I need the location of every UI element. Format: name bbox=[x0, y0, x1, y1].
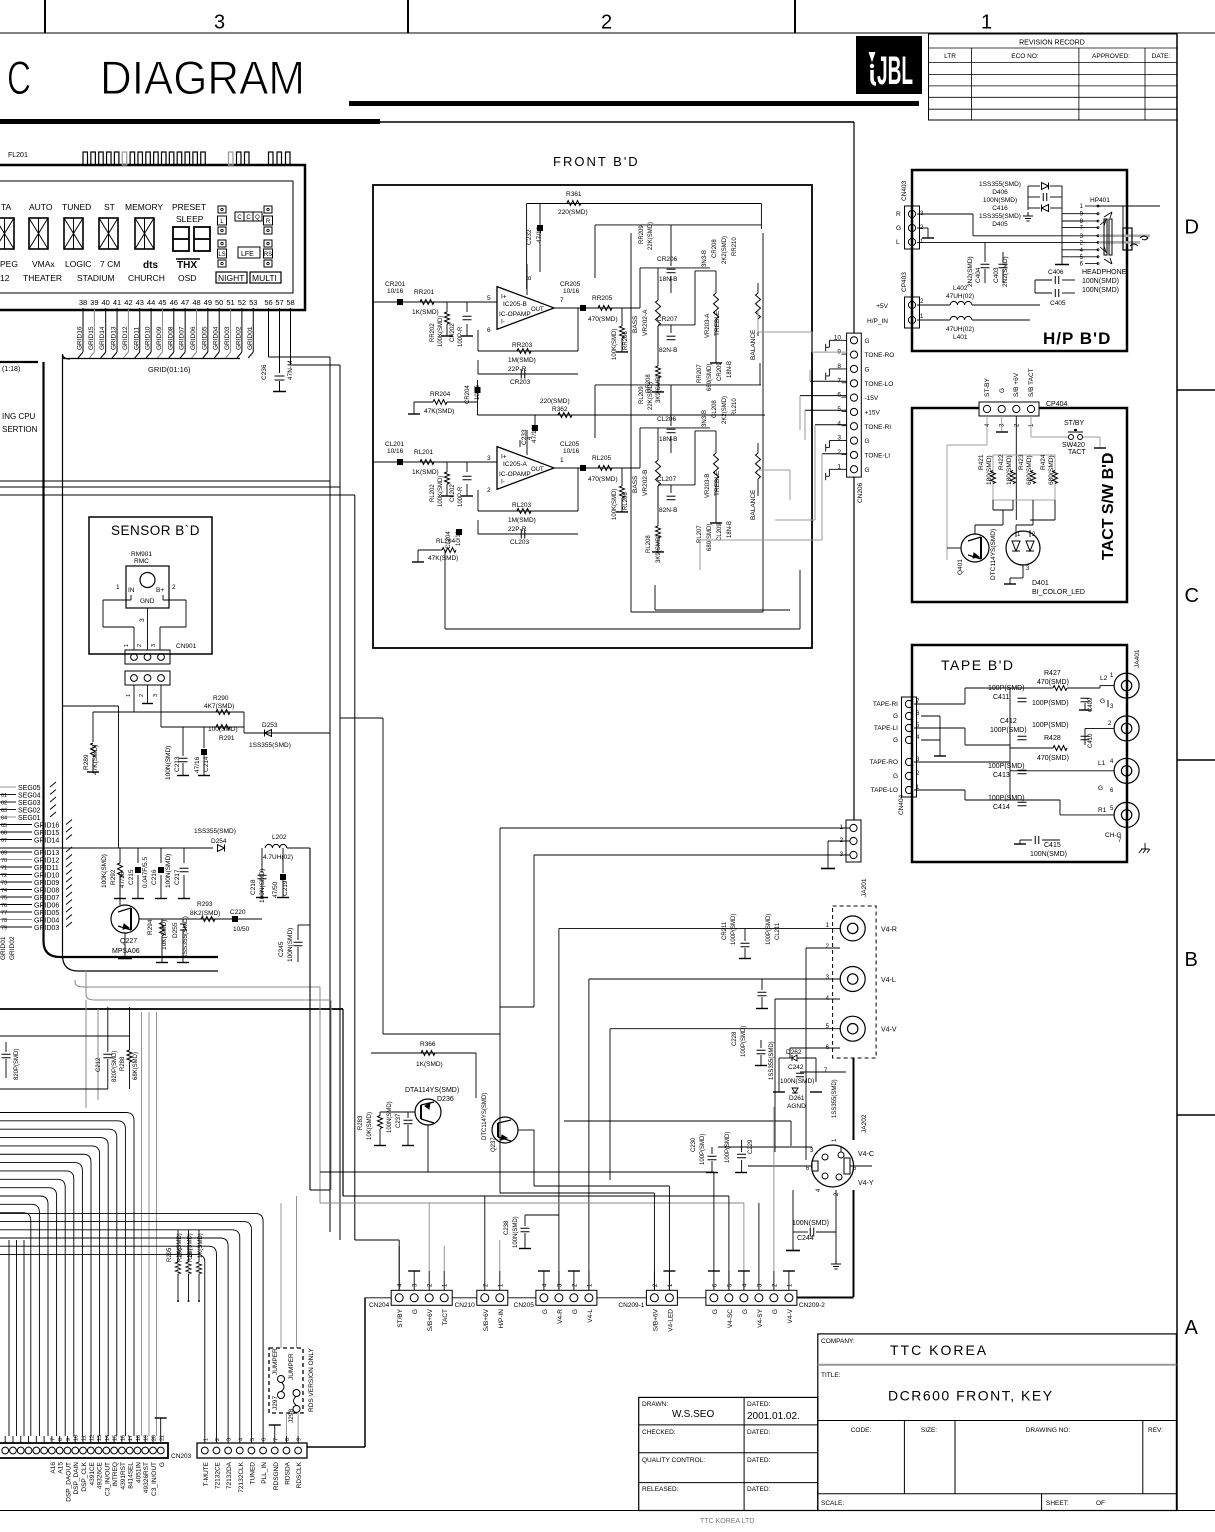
svg-text:47: 47 bbox=[181, 298, 189, 307]
svg-text:100N(SMD): 100N(SMD) bbox=[165, 746, 172, 780]
svg-text:GND: GND bbox=[140, 598, 155, 605]
svg-text:79: 79 bbox=[1, 926, 7, 932]
svg-text:4: 4 bbox=[238, 1438, 244, 1441]
svg-text:TUNED: TUNED bbox=[62, 202, 91, 212]
svg-text:J297: J297 bbox=[272, 1396, 279, 1410]
svg-text:2: 2 bbox=[837, 449, 841, 456]
svg-text:C: C bbox=[237, 215, 242, 221]
svg-text:G: G bbox=[896, 225, 901, 232]
svg-text:TONE-LI: TONE-LI bbox=[865, 452, 891, 459]
svg-text:FL201: FL201 bbox=[8, 152, 28, 159]
svg-text:C: C bbox=[246, 215, 251, 221]
svg-text:9: 9 bbox=[297, 1438, 303, 1441]
svg-text:JBL: JBL bbox=[877, 49, 913, 93]
svg-text:CR202: CR202 bbox=[450, 323, 456, 342]
svg-text:65: 65 bbox=[1, 823, 7, 829]
svg-text:R: R bbox=[266, 219, 271, 225]
svg-text:C213: C213 bbox=[174, 756, 181, 772]
svg-text:PRESET: PRESET bbox=[172, 202, 206, 212]
svg-text:C413: C413 bbox=[993, 772, 1010, 779]
svg-text:GRID(01:16): GRID(01:16) bbox=[148, 365, 191, 374]
svg-text:820P(SMD): 820P(SMD) bbox=[112, 1051, 118, 1082]
svg-text:G: G bbox=[159, 1462, 166, 1467]
svg-text:57: 57 bbox=[275, 298, 283, 307]
svg-text:67: 67 bbox=[1, 838, 7, 844]
svg-text:GRID12: GRID12 bbox=[122, 326, 129, 350]
svg-text:GRID07: GRID07 bbox=[179, 326, 186, 350]
svg-text:V4-R: V4-R bbox=[881, 926, 897, 933]
svg-text:CL201: CL201 bbox=[385, 441, 405, 448]
svg-text:R424: R424 bbox=[1040, 454, 1047, 470]
svg-text:43: 43 bbox=[136, 298, 144, 307]
svg-text:GRID10: GRID10 bbox=[34, 873, 59, 880]
svg-text:DATED:: DATED: bbox=[747, 1429, 771, 1436]
svg-text:41: 41 bbox=[113, 298, 121, 307]
svg-text:2: 2 bbox=[172, 584, 176, 591]
svg-text:C406: C406 bbox=[1048, 269, 1064, 276]
svg-text:GRID03: GRID03 bbox=[34, 925, 59, 932]
svg-text:LS: LS bbox=[218, 252, 225, 258]
svg-text:RR202: RR202 bbox=[430, 323, 436, 342]
svg-text:OUT: OUT bbox=[531, 307, 544, 313]
svg-text:B+: B+ bbox=[156, 587, 164, 594]
svg-text:GRID09: GRID09 bbox=[34, 880, 59, 887]
svg-text:C: C bbox=[1185, 585, 1199, 607]
svg-text:CN404: CN404 bbox=[898, 794, 905, 815]
svg-text:STADIUM: STADIUM bbox=[77, 273, 115, 283]
svg-text:69: 69 bbox=[1, 851, 7, 857]
svg-text:QUALITY CONTROL:: QUALITY CONTROL: bbox=[642, 1457, 705, 1464]
svg-text:BI_COLOR_LED: BI_COLOR_LED bbox=[1032, 589, 1085, 596]
svg-text:RR210: RR210 bbox=[732, 237, 738, 256]
svg-text:GRID16: GRID16 bbox=[77, 326, 84, 350]
svg-text:C: C bbox=[7, 51, 31, 104]
svg-text:GRID13: GRID13 bbox=[34, 850, 59, 857]
svg-text:1: 1 bbox=[126, 694, 132, 697]
svg-text:100P-R: 100P-R bbox=[458, 486, 464, 507]
svg-text:CL207: CL207 bbox=[657, 476, 677, 483]
svg-text:C414: C414 bbox=[993, 804, 1010, 811]
svg-text:220(SMD): 220(SMD) bbox=[540, 398, 570, 405]
svg-text:C233: C233 bbox=[521, 429, 528, 445]
svg-text:18N-B: 18N-B bbox=[659, 436, 677, 443]
svg-text:49326RST: 49326RST bbox=[143, 1462, 150, 1493]
svg-text:JUMPER: JUMPER bbox=[272, 1348, 279, 1375]
svg-text:TAPE B'D: TAPE B'D bbox=[941, 657, 1015, 673]
svg-text:ECO NO:: ECO NO: bbox=[1011, 53, 1039, 60]
svg-text:CR211: CR211 bbox=[722, 921, 728, 940]
svg-text:12: 12 bbox=[0, 273, 10, 283]
svg-text:3: 3 bbox=[139, 618, 146, 622]
svg-text:47UH(02): 47UH(02) bbox=[946, 293, 974, 300]
svg-text:G: G bbox=[865, 366, 870, 373]
svg-text:3N3-B: 3N3-B bbox=[702, 250, 708, 267]
svg-text:THX: THX bbox=[177, 260, 197, 271]
svg-text:2: 2 bbox=[601, 12, 612, 34]
svg-text:22K(SMD): 22K(SMD) bbox=[648, 222, 654, 250]
svg-text:CR207: CR207 bbox=[657, 316, 678, 323]
svg-text:53: 53 bbox=[249, 298, 257, 307]
svg-text:100P(SMD): 100P(SMD) bbox=[731, 914, 737, 945]
svg-text:82N-B: 82N-B bbox=[659, 507, 677, 514]
svg-text:CN209-1: CN209-1 bbox=[618, 1302, 644, 1309]
svg-text:LFE: LFE bbox=[241, 251, 254, 258]
svg-text:TREBLE: TREBLE bbox=[714, 470, 721, 496]
svg-text:C220: C220 bbox=[230, 909, 246, 916]
svg-text:CN205: CN205 bbox=[514, 1302, 535, 1309]
svg-text:R361: R361 bbox=[566, 191, 582, 198]
svg-text:G: G bbox=[865, 438, 870, 445]
svg-text:2: 2 bbox=[139, 694, 145, 697]
svg-text:I+: I+ bbox=[501, 294, 507, 301]
svg-text:H/P_IN: H/P_IN bbox=[867, 318, 888, 325]
svg-text:RL205: RL205 bbox=[592, 455, 612, 462]
svg-text:100P(SMD): 100P(SMD) bbox=[741, 1026, 747, 1057]
svg-text:C216: C216 bbox=[151, 869, 158, 885]
svg-text:D236: D236 bbox=[437, 1096, 454, 1103]
svg-text:7: 7 bbox=[273, 1438, 279, 1441]
svg-text:TONE-LO: TONE-LO bbox=[865, 381, 894, 388]
svg-text:10/16: 10/16 bbox=[563, 288, 580, 295]
svg-text:HP401: HP401 bbox=[1090, 197, 1110, 204]
svg-text:V4-L: V4-L bbox=[587, 1309, 594, 1323]
svg-text:SEG04: SEG04 bbox=[18, 793, 41, 800]
svg-text:VR202-A: VR202-A bbox=[642, 309, 649, 336]
svg-text:100K(SMD): 100K(SMD) bbox=[101, 854, 108, 888]
svg-text:REV:: REV: bbox=[1148, 1427, 1163, 1434]
svg-text:G: G bbox=[572, 1309, 579, 1314]
svg-text:7 CM: 7 CM bbox=[100, 259, 120, 269]
svg-text:100P-R: 100P-R bbox=[458, 326, 464, 347]
svg-text:100P(SMD): 100P(SMD) bbox=[988, 795, 1025, 802]
svg-text:C228: C228 bbox=[732, 1031, 738, 1046]
svg-text:TACT: TACT bbox=[1068, 449, 1086, 456]
svg-text:ST/BY: ST/BY bbox=[1064, 420, 1085, 427]
svg-text:+15V: +15V bbox=[865, 409, 881, 416]
svg-text:CL209: CL209 bbox=[717, 523, 723, 541]
svg-text:2: 2 bbox=[487, 487, 491, 494]
svg-text:AUTO: AUTO bbox=[29, 202, 53, 212]
svg-text:R423: R423 bbox=[1018, 454, 1025, 470]
svg-text:CL203: CL203 bbox=[510, 539, 530, 546]
svg-text:100N(SMD): 100N(SMD) bbox=[165, 854, 172, 888]
svg-text:R289: R289 bbox=[83, 754, 90, 770]
svg-text:470(SMD): 470(SMD) bbox=[588, 476, 618, 483]
svg-text:RR206: RR206 bbox=[623, 331, 629, 350]
svg-text:JA202: JA202 bbox=[861, 1114, 868, 1133]
svg-text:56: 56 bbox=[264, 298, 272, 307]
svg-text:46: 46 bbox=[170, 298, 178, 307]
svg-text:I+: I+ bbox=[501, 454, 507, 461]
svg-text:G: G bbox=[865, 338, 870, 345]
svg-text:RDSGND: RDSGND bbox=[273, 1462, 280, 1490]
svg-text:APPROVED:: APPROVED: bbox=[1092, 53, 1130, 60]
svg-text:G: G bbox=[542, 1309, 549, 1314]
svg-text:C236: C236 bbox=[261, 364, 268, 380]
svg-text:GRID04: GRID04 bbox=[34, 918, 59, 925]
svg-text:2001.01.02.: 2001.01.02. bbox=[747, 1411, 800, 1422]
svg-text:I-: I- bbox=[501, 318, 505, 325]
svg-text:TREBLE: TREBLE bbox=[714, 310, 721, 336]
svg-text:R421: R421 bbox=[978, 454, 985, 470]
svg-text:L: L bbox=[896, 239, 900, 246]
svg-text:17: 17 bbox=[128, 1435, 134, 1441]
svg-text:7: 7 bbox=[837, 377, 841, 384]
svg-text:11: 11 bbox=[82, 1435, 88, 1441]
svg-text:VR203-A: VR203-A bbox=[705, 314, 711, 338]
svg-text:D: D bbox=[1185, 217, 1199, 239]
svg-text:V4-SY: V4-SY bbox=[757, 1308, 764, 1327]
svg-text:3: 3 bbox=[153, 694, 159, 697]
svg-text:C244: C244 bbox=[797, 1235, 814, 1242]
svg-text:SEG03: SEG03 bbox=[18, 800, 41, 807]
svg-text:820P(SMD): 820P(SMD) bbox=[14, 1049, 20, 1080]
svg-text:GRID13: GRID13 bbox=[111, 326, 118, 350]
svg-text:OUT: OUT bbox=[531, 467, 544, 473]
svg-text:CP403: CP403 bbox=[901, 272, 908, 292]
svg-text:Q: Q bbox=[255, 215, 260, 221]
svg-text:TACT: TACT bbox=[442, 1309, 449, 1326]
svg-text:78: 78 bbox=[1, 918, 7, 924]
svg-text:L1: L1 bbox=[1098, 760, 1106, 767]
svg-text:-15V: -15V bbox=[865, 395, 879, 402]
svg-text:CR203: CR203 bbox=[510, 379, 531, 386]
svg-text:T-MUTE: T-MUTE bbox=[203, 1461, 210, 1486]
svg-text:19: 19 bbox=[144, 1435, 150, 1441]
svg-text:8K2(SMD): 8K2(SMD) bbox=[190, 910, 220, 917]
svg-text:TONE-RI: TONE-RI bbox=[865, 424, 892, 431]
svg-text:RL206: RL206 bbox=[623, 492, 629, 510]
svg-text:C403: C403 bbox=[993, 267, 1000, 283]
svg-text:100K(SMD): 100K(SMD) bbox=[438, 316, 444, 347]
svg-text:1: 1 bbox=[124, 644, 130, 647]
svg-text:C412: C412 bbox=[1000, 718, 1017, 725]
svg-text:18N-B: 18N-B bbox=[659, 276, 677, 283]
svg-text:74: 74 bbox=[1, 888, 7, 894]
svg-text:2N2(SMD): 2N2(SMD) bbox=[967, 256, 974, 287]
svg-text:GRID06: GRID06 bbox=[190, 326, 197, 350]
svg-text:D405: D405 bbox=[992, 221, 1008, 228]
svg-text:14: 14 bbox=[105, 1435, 111, 1441]
svg-text:R296: R296 bbox=[178, 1247, 184, 1262]
svg-text:7: 7 bbox=[50, 1438, 56, 1441]
svg-text:DRAWING NO:: DRAWING NO: bbox=[1026, 1427, 1071, 1434]
svg-text:C242: C242 bbox=[788, 1064, 804, 1071]
svg-text:IN: IN bbox=[128, 587, 135, 594]
svg-text:5: 5 bbox=[487, 295, 491, 302]
svg-text:3: 3 bbox=[214, 12, 225, 34]
svg-text:470(SMD): 470(SMD) bbox=[1037, 755, 1069, 762]
svg-text:COMPANY:: COMPANY: bbox=[821, 1338, 855, 1345]
svg-text:V4-V: V4-V bbox=[881, 1027, 897, 1034]
svg-text:47/16: 47/16 bbox=[531, 426, 538, 443]
svg-text:22P-R: 22P-R bbox=[508, 526, 527, 533]
svg-text:CR201: CR201 bbox=[385, 281, 406, 288]
svg-text:RDS VERSION ONLY: RDS VERSION ONLY bbox=[308, 1348, 315, 1412]
svg-text:TAPE-LO: TAPE-LO bbox=[871, 787, 898, 794]
svg-text:OSD: OSD bbox=[178, 273, 196, 283]
svg-text:100N(SMD): 100N(SMD) bbox=[287, 928, 294, 962]
svg-text:3: 3 bbox=[151, 644, 157, 647]
svg-text:CHECKED:: CHECKED: bbox=[642, 1429, 676, 1436]
svg-text:DSP_CLK: DSP_CLK bbox=[81, 1461, 88, 1491]
svg-text:R422: R422 bbox=[998, 454, 1005, 470]
svg-text:RMC: RMC bbox=[134, 558, 149, 565]
svg-text:1: 1 bbox=[203, 1438, 209, 1441]
svg-text:RL209: RL209 bbox=[639, 386, 645, 404]
svg-text:GRID04: GRID04 bbox=[213, 326, 220, 350]
svg-text:C416: C416 bbox=[992, 205, 1008, 212]
svg-text:DSP_DAIN: DSP_DAIN bbox=[73, 1462, 80, 1495]
svg-text:DRAWN:: DRAWN: bbox=[642, 1401, 668, 1408]
svg-text:RS: RS bbox=[264, 252, 272, 258]
svg-text:GRID02: GRID02 bbox=[9, 936, 16, 960]
svg-text:INTREQ: INTREQ bbox=[112, 1462, 119, 1487]
svg-text:C229: C229 bbox=[748, 1139, 754, 1154]
svg-text:680(SMD): 680(SMD) bbox=[707, 364, 713, 391]
svg-text:DATED:: DATED: bbox=[747, 1457, 771, 1464]
svg-text:CN403: CN403 bbox=[901, 180, 908, 201]
svg-text:100P(SMD): 100P(SMD) bbox=[1032, 722, 1069, 729]
svg-text:CHURCH: CHURCH bbox=[128, 273, 165, 283]
svg-text:CL211: CL211 bbox=[775, 922, 781, 940]
svg-text:RELEASED:: RELEASED: bbox=[642, 1486, 679, 1493]
svg-text:ING CPU: ING CPU bbox=[2, 412, 36, 421]
svg-text:GRID16: GRID16 bbox=[34, 823, 59, 830]
svg-text:R283: R283 bbox=[358, 1115, 364, 1130]
svg-text:C237: C237 bbox=[396, 1113, 402, 1128]
svg-text:C218: C218 bbox=[250, 879, 257, 895]
svg-text:4.7UH(02): 4.7UH(02) bbox=[263, 854, 293, 861]
svg-text:2: 2 bbox=[215, 1438, 221, 1441]
svg-text:G: G bbox=[742, 1309, 749, 1314]
svg-text:45: 45 bbox=[158, 298, 166, 307]
svg-text:100N(SMD): 100N(SMD) bbox=[1082, 278, 1119, 285]
svg-text:GRID01: GRID01 bbox=[247, 326, 254, 350]
svg-text:6: 6 bbox=[262, 1438, 268, 1441]
svg-text:S/B +6V: S/B +6V bbox=[1013, 372, 1020, 397]
svg-text:+5V: +5V bbox=[876, 303, 888, 310]
svg-text:DTC114YS(SMD): DTC114YS(SMD) bbox=[990, 529, 997, 580]
svg-text:TONE-RO: TONE-RO bbox=[865, 352, 895, 359]
svg-text:1SS355(SMD): 1SS355(SMD) bbox=[979, 213, 1021, 220]
svg-text:3N3-B: 3N3-B bbox=[702, 410, 708, 427]
svg-text:C215: C215 bbox=[128, 869, 135, 885]
svg-text:RL203: RL203 bbox=[512, 502, 532, 509]
svg-text:22K(SMD): 22K(SMD) bbox=[648, 382, 654, 410]
svg-text:BASS: BASS bbox=[632, 315, 639, 333]
svg-text:10K(SMD): 10K(SMD) bbox=[367, 1112, 373, 1140]
svg-text:100N(SMD): 100N(SMD) bbox=[1082, 287, 1119, 294]
svg-text:72: 72 bbox=[1, 873, 7, 879]
svg-text:GRID08: GRID08 bbox=[167, 326, 174, 350]
svg-text:10/16: 10/16 bbox=[475, 384, 481, 400]
svg-text:18N-B: 18N-B bbox=[727, 361, 733, 378]
svg-text:C411: C411 bbox=[993, 694, 1009, 701]
svg-text:100P(SMD): 100P(SMD) bbox=[990, 727, 1027, 734]
svg-text:0.047F/5.5: 0.047F/5.5 bbox=[142, 857, 149, 888]
svg-text:CP404: CP404 bbox=[1046, 401, 1068, 408]
svg-text:GRID15: GRID15 bbox=[88, 326, 95, 350]
svg-text:Q401: Q401 bbox=[957, 559, 964, 575]
svg-text:180(SMD): 180(SMD) bbox=[986, 455, 993, 485]
svg-text:D261: D261 bbox=[789, 1095, 805, 1102]
svg-text:TA: TA bbox=[1, 202, 12, 212]
svg-text:D401: D401 bbox=[1032, 580, 1049, 587]
svg-text:MEMORY: MEMORY bbox=[125, 202, 163, 212]
svg-text:C245: C245 bbox=[278, 941, 285, 957]
svg-text:4051IN: 4051IN bbox=[135, 1462, 142, 1483]
svg-text:GRID10: GRID10 bbox=[145, 326, 152, 350]
svg-text:1K(SMD): 1K(SMD) bbox=[412, 469, 439, 476]
svg-text:GRID01: GRID01 bbox=[0, 936, 7, 960]
svg-text:DATED:: DATED: bbox=[747, 1486, 771, 1493]
svg-text:G: G bbox=[999, 388, 1006, 393]
svg-text:DATED:: DATED: bbox=[747, 1401, 771, 1408]
svg-text:1SS355(SMD): 1SS355(SMD) bbox=[979, 181, 1021, 188]
svg-text:C217: C217 bbox=[174, 869, 181, 885]
svg-text:V4-L: V4-L bbox=[881, 977, 896, 984]
svg-text:R292: R292 bbox=[110, 869, 117, 885]
svg-text:44: 44 bbox=[147, 298, 155, 307]
svg-text:THEATER: THEATER bbox=[23, 273, 62, 283]
svg-text:FRONT B'D: FRONT B'D bbox=[553, 154, 640, 169]
svg-text:DSP_DAOUT: DSP_DAOUT bbox=[65, 1462, 72, 1502]
svg-text:52: 52 bbox=[238, 298, 246, 307]
svg-text:CN206: CN206 bbox=[857, 482, 864, 503]
svg-text:75: 75 bbox=[1, 896, 7, 902]
svg-text:G: G bbox=[412, 1309, 419, 1314]
svg-text:5: 5 bbox=[837, 406, 841, 413]
svg-text:V4-LED: V4-LED bbox=[667, 1309, 674, 1332]
svg-text:8414SEL: 8414SEL bbox=[128, 1462, 135, 1489]
svg-text:71: 71 bbox=[1, 866, 7, 872]
svg-text:R366: R366 bbox=[420, 1041, 436, 1048]
svg-text:V4-C: V4-C bbox=[858, 1151, 874, 1158]
svg-text:18N-B: 18N-B bbox=[727, 521, 733, 538]
svg-text:I-: I- bbox=[501, 478, 505, 485]
svg-text:DTC114YS(SMD): DTC114YS(SMD) bbox=[482, 1093, 488, 1140]
svg-text:DCR600 FRONT, KEY: DCR600 FRONT, KEY bbox=[888, 1388, 1054, 1404]
svg-text:BALANCE: BALANCE bbox=[750, 329, 757, 360]
svg-text:dts: dts bbox=[143, 260, 158, 271]
svg-text:OF: OF bbox=[1096, 1500, 1105, 1507]
svg-text:4: 4 bbox=[837, 420, 841, 427]
svg-text:GRID07: GRID07 bbox=[34, 895, 59, 902]
svg-text:680(SMD): 680(SMD) bbox=[1048, 455, 1055, 485]
svg-text:DTA114YS(SMD): DTA114YS(SMD) bbox=[405, 1087, 459, 1094]
svg-text:GRID15: GRID15 bbox=[34, 830, 59, 837]
svg-text:2K2(SMD): 2K2(SMD) bbox=[722, 236, 728, 264]
svg-text:680(SMD): 680(SMD) bbox=[1026, 455, 1033, 485]
svg-text:C212: C212 bbox=[96, 1057, 102, 1072]
svg-text:SEG02: SEG02 bbox=[18, 808, 41, 815]
svg-text:R288: R288 bbox=[120, 1056, 126, 1071]
svg-text:V4-V: V4-V bbox=[787, 1308, 794, 1323]
svg-text:470(SMD): 470(SMD) bbox=[588, 316, 618, 323]
svg-text:A16: A16 bbox=[50, 1462, 57, 1474]
svg-text:10/16: 10/16 bbox=[456, 530, 462, 546]
svg-text:1K(SMD): 1K(SMD) bbox=[412, 309, 439, 316]
svg-text:1: 1 bbox=[981, 12, 992, 34]
svg-text:TITLE:: TITLE: bbox=[821, 1372, 841, 1379]
svg-text:C232: C232 bbox=[526, 229, 533, 245]
svg-text:REVISION RECORD: REVISION RECORD bbox=[1019, 40, 1085, 47]
svg-text:C3_IN/OUT: C3_IN/OUT bbox=[104, 1462, 111, 1496]
svg-text:GRID02: GRID02 bbox=[235, 326, 242, 350]
svg-text:73: 73 bbox=[1, 881, 7, 887]
svg-text:GRID14: GRID14 bbox=[34, 838, 59, 845]
